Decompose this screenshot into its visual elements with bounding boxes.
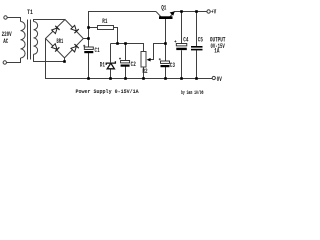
terminal +V output — [207, 10, 210, 13]
capacitor C3 electrolytic plates — [159, 58, 170, 67]
wire C4 top lead — [181, 12, 183, 44]
svg-text:AC: AC — [3, 39, 8, 46]
svg-text:R1: R1 — [102, 19, 107, 26]
wire from bottom terminal to transformer primary bottom — [7, 58, 21, 63]
bridge diode D-BL (left corner to bottom corner) — [51, 43, 59, 51]
wire C5 top lead — [196, 12, 198, 47]
bridge diode D-TL (left corner to top corner) — [51, 26, 59, 34]
capacitor C2 electrolytic plates — [119, 58, 130, 67]
wire C1 bottom to ground rail — [88, 53, 90, 79]
junction node dot R1 down on zener bus — [116, 42, 119, 45]
junction node dot C2 top on zener bus — [124, 42, 127, 45]
transistor Q1 base wire down through wiper node to C3 — [165, 19, 167, 61]
R2 wiper arm wire to base node — [151, 44, 166, 60]
svg-text:by Sam 10/98: by Sam 10/98 — [181, 89, 204, 96]
wire D1 top lead — [110, 44, 112, 63]
svg-text:BR1: BR1 — [57, 38, 64, 45]
junction node dot bridge plus on riser — [87, 37, 90, 40]
wire R2 bottom to ground rail — [143, 67, 145, 79]
zener diode D1 body — [106, 61, 115, 69]
junction node dot secondary bottom to bridge — [63, 60, 66, 63]
svg-text:C1: C1 — [95, 47, 100, 54]
svg-text:C4: C4 — [183, 37, 188, 44]
wire secondary bottom to bridge bottom corner — [34, 54, 65, 61]
junction node dot C1 ground — [87, 77, 90, 80]
svg-text:1A: 1A — [214, 48, 220, 55]
wire D1 bottom to ground rail — [110, 69, 112, 79]
capacitor C5 plates — [191, 46, 203, 50]
ground rail (bottom 0V rail) — [46, 78, 213, 80]
transformer T1 core — [27, 20, 29, 60]
wire C3 bottom to ground rail — [165, 67, 167, 79]
svg-text:T1: T1 — [27, 8, 33, 16]
wire C2 top lead — [125, 44, 127, 61]
svg-text:R2: R2 — [142, 69, 147, 76]
svg-text:C3: C3 — [170, 63, 175, 70]
junction node dot C5 ground — [195, 77, 198, 80]
junction node dot R2 ground — [142, 77, 145, 80]
junction node dot C4 top rail — [180, 10, 183, 13]
wire secondary top to bridge top corner — [34, 20, 66, 22]
transistor Q1 emitter slant — [169, 12, 175, 19]
zener bus wire (R1/D1/C2 junction to R2 top) — [111, 44, 144, 53]
capacitor C4 electrolytic plates — [174, 40, 186, 50]
svg-text:D1: D1 — [100, 62, 105, 69]
svg-text:0V: 0V — [217, 77, 223, 84]
bridge diode D-TR (top corner to right corner) — [71, 25, 79, 33]
svg-text:C2: C2 — [131, 62, 136, 69]
wire from top terminal to transformer primary top — [7, 18, 20, 22]
junction node dot D1 ground — [109, 77, 112, 80]
junction node dot R1 left on riser — [87, 26, 90, 29]
svg-text:220V: 220V — [2, 32, 13, 39]
junction node dot C5 top rail — [195, 10, 198, 13]
svg-text:Power Supply 0-15V/1A: Power Supply 0-15V/1A — [76, 88, 140, 96]
junction node dot C3 ground — [164, 77, 167, 80]
wire R1 right lead down to zener bus — [114, 28, 118, 45]
terminal bottom-left AC input — [3, 61, 6, 64]
wire C4 bottom to ground rail — [181, 50, 183, 79]
bridge diode D-BR (bottom corner to right corner) — [71, 44, 79, 52]
wire R1 left lead — [89, 27, 98, 29]
potentiometer R2 body — [141, 52, 146, 68]
junction node dot wiper to base — [164, 42, 167, 45]
svg-text:+V: +V — [211, 9, 217, 16]
potentiometer R2 wiper arrow — [147, 58, 151, 62]
wire bridge minus corner down to ground rail — [45, 39, 47, 80]
transformer T1 secondary winding — [34, 22, 38, 55]
transistor Q1 emitter arrow — [170, 11, 175, 16]
wire C5 bottom to ground rail — [196, 50, 198, 79]
svg-text:Q1: Q1 — [161, 5, 166, 12]
bridge rectifier BR1 diamond — [46, 20, 84, 58]
node A riser wire (rectifier + to top rail and C1) — [89, 12, 157, 48]
output top rail (emitter to +V) — [175, 11, 207, 13]
transistor Q1 collector slant — [156, 12, 161, 17]
transistor Q1 base bar — [159, 16, 173, 19]
terminal top-left AC input — [4, 16, 7, 19]
wire C2 bottom to ground rail — [125, 67, 127, 80]
transformer T1 primary winding — [21, 22, 26, 59]
terminal 0V output — [212, 76, 215, 79]
wire bridge plus corner to node A riser — [83, 38, 88, 40]
junction node dot C4 ground — [180, 77, 183, 80]
svg-text:C5: C5 — [198, 37, 203, 44]
resistor R1 body — [98, 26, 114, 30]
capacitor C1 electrolytic plates — [83, 45, 93, 53]
junction node dot C2 ground — [124, 77, 127, 80]
